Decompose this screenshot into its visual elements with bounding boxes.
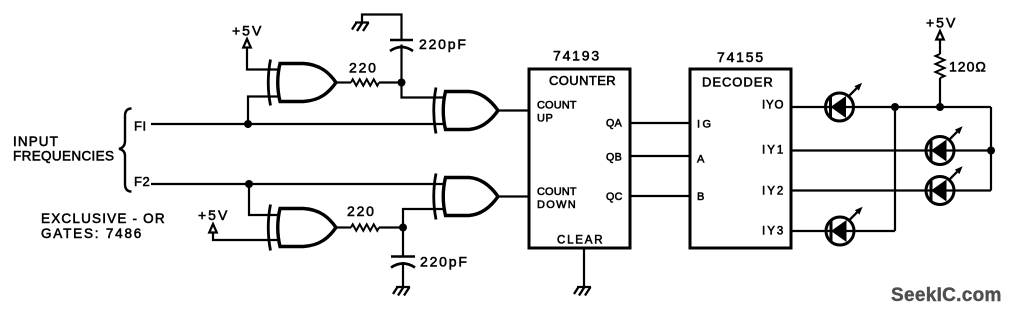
svg-text:IY3: IY3 [762,226,785,238]
svg-text:+5V: +5V [926,15,957,31]
svg-text:74155: 74155 [717,49,765,65]
svg-text:B: B [697,191,705,203]
svg-text:QB: QB [606,152,622,164]
svg-text:IY2: IY2 [762,186,785,198]
svg-text:F2: F2 [134,174,150,189]
svg-text:GATES: 7486: GATES: 7486 [41,226,143,241]
svg-text:220pF: 220pF [419,36,468,52]
svg-text:220pF: 220pF [420,254,469,270]
svg-text:A: A [697,154,705,166]
svg-text:CLEAR: CLEAR [557,235,604,247]
svg-text:UP: UP [537,113,553,125]
svg-text:+5V: +5V [198,207,229,223]
svg-text:74193: 74193 [553,48,601,64]
svg-text:COUNTER: COUNTER [549,73,616,88]
svg-text:QC: QC [606,191,623,203]
svg-text:FI: FI [134,119,147,134]
svg-text:IYO: IYO [762,100,784,112]
svg-text:IY1: IY1 [762,145,785,157]
svg-text:IG: IG [697,119,714,131]
svg-text:120Ω: 120Ω [949,59,987,75]
svg-text:220: 220 [349,60,378,76]
svg-text:COUNT: COUNT [537,100,577,112]
svg-text:+5V: +5V [232,23,263,39]
svg-text:INPUT: INPUT [13,134,59,149]
svg-text:SeekIC.com: SeekIC.com [891,285,1002,306]
svg-text:DOWN: DOWN [537,199,577,211]
svg-text:FREQUENCIES: FREQUENCIES [13,149,114,164]
svg-text:QA: QA [606,118,623,130]
svg-text:DECODER: DECODER [702,75,774,90]
svg-text:220: 220 [347,203,376,219]
svg-text:COUNT: COUNT [537,186,577,198]
svg-text:EXCLUSIVE - OR: EXCLUSIVE - OR [41,211,166,226]
